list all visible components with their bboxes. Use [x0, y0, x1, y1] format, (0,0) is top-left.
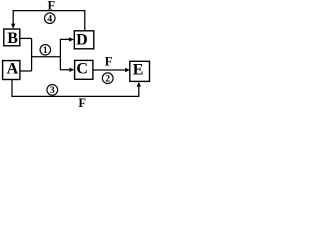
- arrowhead into E bottom: [137, 82, 141, 87]
- arrowhead into C left: [69, 68, 74, 72]
- wire A right to bus: [20, 70, 32, 72]
- box B: [4, 29, 20, 47]
- box E: [130, 61, 150, 81]
- wire split riser up and to D: [60, 39, 69, 56]
- wire bus to split riser: [32, 56, 61, 58]
- arrowhead into B top: [11, 24, 15, 29]
- label 2 circled: [102, 73, 113, 85]
- label 4 circled: [45, 13, 56, 25]
- wire bottom A bottom to E bottom: [12, 80, 139, 97]
- wire top feedback from D top to B top: [13, 11, 85, 31]
- svg-text:E: E: [133, 62, 144, 79]
- svg-text:C: C: [76, 60, 88, 77]
- box C: [75, 60, 93, 79]
- svg-text:1: 1: [43, 45, 48, 56]
- svg-text:3: 3: [50, 85, 55, 96]
- wire B right to bus: [20, 37, 32, 39]
- wire C to E: [93, 69, 125, 71]
- svg-text:F: F: [78, 96, 86, 110]
- svg-text:D: D: [76, 31, 88, 48]
- svg-text:F: F: [105, 55, 113, 69]
- box A: [3, 61, 20, 80]
- label 1 circled: [40, 45, 51, 57]
- box D: [74, 31, 94, 49]
- label 3 circled: [47, 85, 58, 97]
- svg-text:B: B: [7, 30, 18, 47]
- svg-text:2: 2: [105, 74, 110, 85]
- wire bus vertical: [31, 38, 33, 71]
- arrowhead into D left: [69, 37, 74, 41]
- svg-text:4: 4: [47, 14, 52, 25]
- svg-text:F: F: [47, 0, 55, 12]
- svg-text:A: A: [7, 61, 19, 78]
- wire split riser down and to C: [60, 57, 69, 70]
- arrowhead into E left: [125, 68, 130, 72]
